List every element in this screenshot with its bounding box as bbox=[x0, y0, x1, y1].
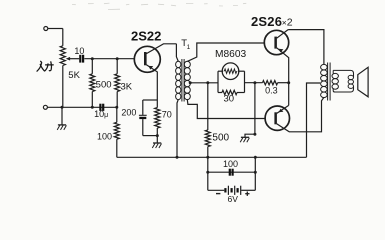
T2 center tap wire bbox=[307, 83, 321, 157]
input terminal J1 (top) bbox=[44, 27, 48, 31]
svg-text:100: 100 bbox=[97, 132, 112, 142]
resistor R1 500 bbox=[91, 59, 93, 74]
wire bbox=[245, 82, 263, 84]
Q2 collector wire bbox=[277, 30, 288, 39]
svg-text:500: 500 bbox=[96, 79, 112, 90]
Q3 collector wire bbox=[277, 97, 324, 131]
T2 secondary winding bbox=[332, 70, 334, 73]
svg-text:2S26: 2S26 bbox=[251, 14, 282, 29]
T1 center tap wire bbox=[189, 82, 218, 84]
wire bbox=[207, 157, 209, 190]
resistor R2 3K bbox=[116, 59, 118, 74]
node bbox=[206, 171, 209, 174]
T2 core bbox=[327, 63, 329, 101]
svg-text:2S22: 2S22 bbox=[131, 28, 161, 43]
speaker SP cone bbox=[358, 67, 368, 97]
T1 primary top lead bbox=[176, 44, 178, 62]
left bar of network bbox=[217, 71, 219, 92]
Q3 emitter wire bbox=[277, 105, 289, 113]
transistor Q1 2S22 bbox=[134, 46, 160, 72]
capacitor C1 10uF bbox=[79, 55, 81, 63]
T1 primary winding bbox=[176, 61, 181, 67]
wire bbox=[62, 66, 64, 108]
wire bbox=[254, 157, 256, 190]
resistor R7 500 bbox=[207, 83, 209, 130]
wire bbox=[143, 99, 158, 101]
node bbox=[91, 106, 94, 109]
svg-text:0.3: 0.3 bbox=[265, 86, 278, 96]
node bbox=[206, 156, 209, 159]
right bar of network bbox=[244, 71, 246, 92]
top rail wire bbox=[288, 30, 324, 65]
label plus bbox=[245, 193, 249, 195]
ground bbox=[241, 136, 249, 138]
resistor R5 30 bbox=[218, 92, 222, 94]
speaker wire top bbox=[333, 70, 353, 77]
svg-text:500: 500 bbox=[212, 133, 229, 144]
T1 primary bottom lead bbox=[177, 99, 178, 157]
Q1 emitter wire bbox=[146, 65, 157, 100]
svg-text:200: 200 bbox=[121, 107, 136, 117]
wire bbox=[84, 58, 134, 60]
speaker wire bottom bbox=[333, 86, 353, 92]
node bbox=[116, 57, 119, 60]
node at pot bottom bbox=[61, 106, 64, 109]
svg-text:30: 30 bbox=[224, 94, 235, 105]
wire to ground bbox=[245, 83, 255, 137]
T1 core bbox=[181, 59, 183, 102]
node bbox=[91, 57, 94, 60]
wire bbox=[47, 106, 116, 108]
svg-text:5K: 5K bbox=[68, 70, 80, 81]
Q2 emitter wire bbox=[277, 48, 289, 106]
battery BT1 6V bbox=[224, 188, 226, 192]
Q1 collector wire bbox=[146, 44, 176, 54]
thermistor M8603 bbox=[222, 63, 239, 80]
transistor Q2 2S26 (upper) bbox=[264, 30, 288, 54]
capacitor C2 10uF bbox=[99, 104, 101, 111]
node bbox=[156, 134, 159, 137]
node bbox=[176, 156, 179, 159]
bottom rail wire bbox=[117, 156, 307, 158]
svg-text:3K: 3K bbox=[121, 82, 133, 93]
label minus bbox=[216, 193, 220, 195]
wiper arrow of 5K pot bbox=[70, 58, 80, 60]
speaker voice coil bbox=[348, 75, 353, 79]
capacitor C3 200uF bbox=[142, 100, 144, 115]
node bbox=[115, 106, 118, 109]
wire bbox=[48, 28, 63, 30]
ground bbox=[156, 136, 158, 143]
node bbox=[206, 81, 209, 84]
node bbox=[253, 133, 256, 136]
resistor R4 70 bbox=[156, 100, 158, 108]
ground bbox=[61, 107, 63, 124]
resistor R3 100 bbox=[116, 107, 118, 122]
output transformer T2 primary bbox=[321, 64, 328, 70]
capacitor C4 100uF bbox=[208, 171, 256, 173]
potentiometer VR 5K bbox=[60, 46, 65, 66]
svg-text:100: 100 bbox=[223, 159, 238, 169]
node bbox=[189, 81, 192, 84]
T1 secondary winding bbox=[184, 61, 190, 67]
svg-text:M8603: M8603 bbox=[215, 49, 246, 60]
svg-text:×2: ×2 bbox=[282, 17, 293, 29]
svg-text:70: 70 bbox=[162, 109, 172, 119]
wire bbox=[143, 135, 158, 137]
node bbox=[254, 156, 257, 159]
node bbox=[253, 81, 256, 84]
T1 secondary bottom lead bbox=[187, 99, 265, 118]
svg-text:6V: 6V bbox=[227, 194, 238, 204]
svg-text:1: 1 bbox=[187, 44, 191, 51]
node bbox=[287, 81, 290, 84]
resistor R6 0.3 bbox=[263, 81, 278, 85]
label input 入力 bbox=[37, 61, 53, 71]
T1 secondary top lead bbox=[187, 43, 264, 61]
input terminal J2 (bottom) bbox=[43, 105, 47, 109]
svg-text:10: 10 bbox=[74, 46, 84, 56]
node bbox=[254, 171, 257, 174]
transistor Q3 2S26 (lower) bbox=[265, 106, 289, 130]
